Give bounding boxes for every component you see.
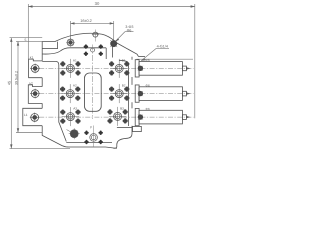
cluster A2 xyxy=(60,84,80,103)
svg-text:Φ6: Φ6 xyxy=(146,58,150,62)
hole top-right phi3 dark xyxy=(110,40,117,47)
top-right step xyxy=(139,56,146,58)
inner contour bottom line xyxy=(66,142,112,144)
body left edge top segment xyxy=(41,42,43,61)
body right edge segments between flanges xyxy=(131,57,133,128)
left dimension 39.5±0.2 xyxy=(17,41,19,132)
body outline: top edge and hump xyxy=(42,33,138,56)
svg-text:k2: k2 xyxy=(29,81,33,85)
svg-text:Φ6: Φ6 xyxy=(127,28,132,32)
svg-text:B2: B2 xyxy=(122,84,126,88)
svg-text:4-G1/4: 4-G1/4 xyxy=(157,45,168,49)
cluster B1 xyxy=(109,59,129,78)
body left edge between tab2-tab3 xyxy=(41,103,43,108)
dimension 30 top xyxy=(28,4,195,118)
left dimension 45 xyxy=(10,38,12,149)
svg-text:30: 30 xyxy=(95,1,100,6)
svg-text:5: 5 xyxy=(25,38,27,42)
svg-text:k1: k1 xyxy=(30,55,34,59)
svg-text:16±0.2: 16±0.2 xyxy=(80,19,92,23)
svg-text:L1: L1 xyxy=(24,113,28,117)
svg-text:B1: B1 xyxy=(122,59,126,63)
cluster A3 xyxy=(61,107,81,126)
stub row 3 xyxy=(135,108,186,125)
slot vertical centerline xyxy=(92,45,94,120)
central slot xyxy=(85,73,102,111)
callout 3-phi3 xyxy=(115,32,133,42)
row centerlines xyxy=(30,68,194,117)
bottom-right scallop corner xyxy=(114,128,133,149)
hole top-middle phi3 xyxy=(92,32,99,37)
extension line top-right xyxy=(137,58,194,60)
svg-text:A2: A2 xyxy=(73,84,77,88)
hole top-left phi3 xyxy=(66,38,74,46)
stub3 lower block xyxy=(133,126,142,131)
svg-text:P: P xyxy=(90,126,92,130)
svg-text:A1: A1 xyxy=(73,59,77,63)
svg-text:45: 45 xyxy=(8,81,12,85)
body left edge below tab3 + bottom-left chamfer + bottom edge xyxy=(42,126,117,149)
cluster A1 xyxy=(61,59,81,78)
inner steps top-left xyxy=(42,48,58,50)
stub row 1 xyxy=(135,60,186,77)
left tab 1 xyxy=(29,59,43,78)
svg-text:Φ6: Φ6 xyxy=(146,84,150,88)
left tab 2 xyxy=(28,85,42,104)
hump vertical centerline xyxy=(94,30,96,42)
stub row 2 xyxy=(135,85,186,102)
extension lines left xyxy=(10,38,71,149)
svg-text:B3: B3 xyxy=(120,107,124,111)
svg-text:A3: A3 xyxy=(73,107,77,111)
callout 4-G1/4 xyxy=(141,48,169,61)
svg-text:39.5±0.2: 39.5±0.2 xyxy=(14,71,18,85)
svg-text:Φ6: Φ6 xyxy=(146,107,150,111)
dimension 16±0.2 xyxy=(71,21,114,41)
body left edge between tab1-tab2 xyxy=(41,78,43,87)
inner contour right pocket xyxy=(119,60,129,126)
bottom dark hole xyxy=(67,128,80,139)
cluster B2 xyxy=(109,84,129,103)
cluster B3 xyxy=(108,107,128,126)
bottom center cluster P xyxy=(84,131,103,145)
hump right inner edge xyxy=(111,44,113,58)
stubs xyxy=(133,60,187,132)
inner contour left pocket xyxy=(42,61,66,141)
left tab 3 xyxy=(23,108,42,125)
tiny top port cluster xyxy=(84,44,103,56)
cluster labels xyxy=(73,59,126,111)
